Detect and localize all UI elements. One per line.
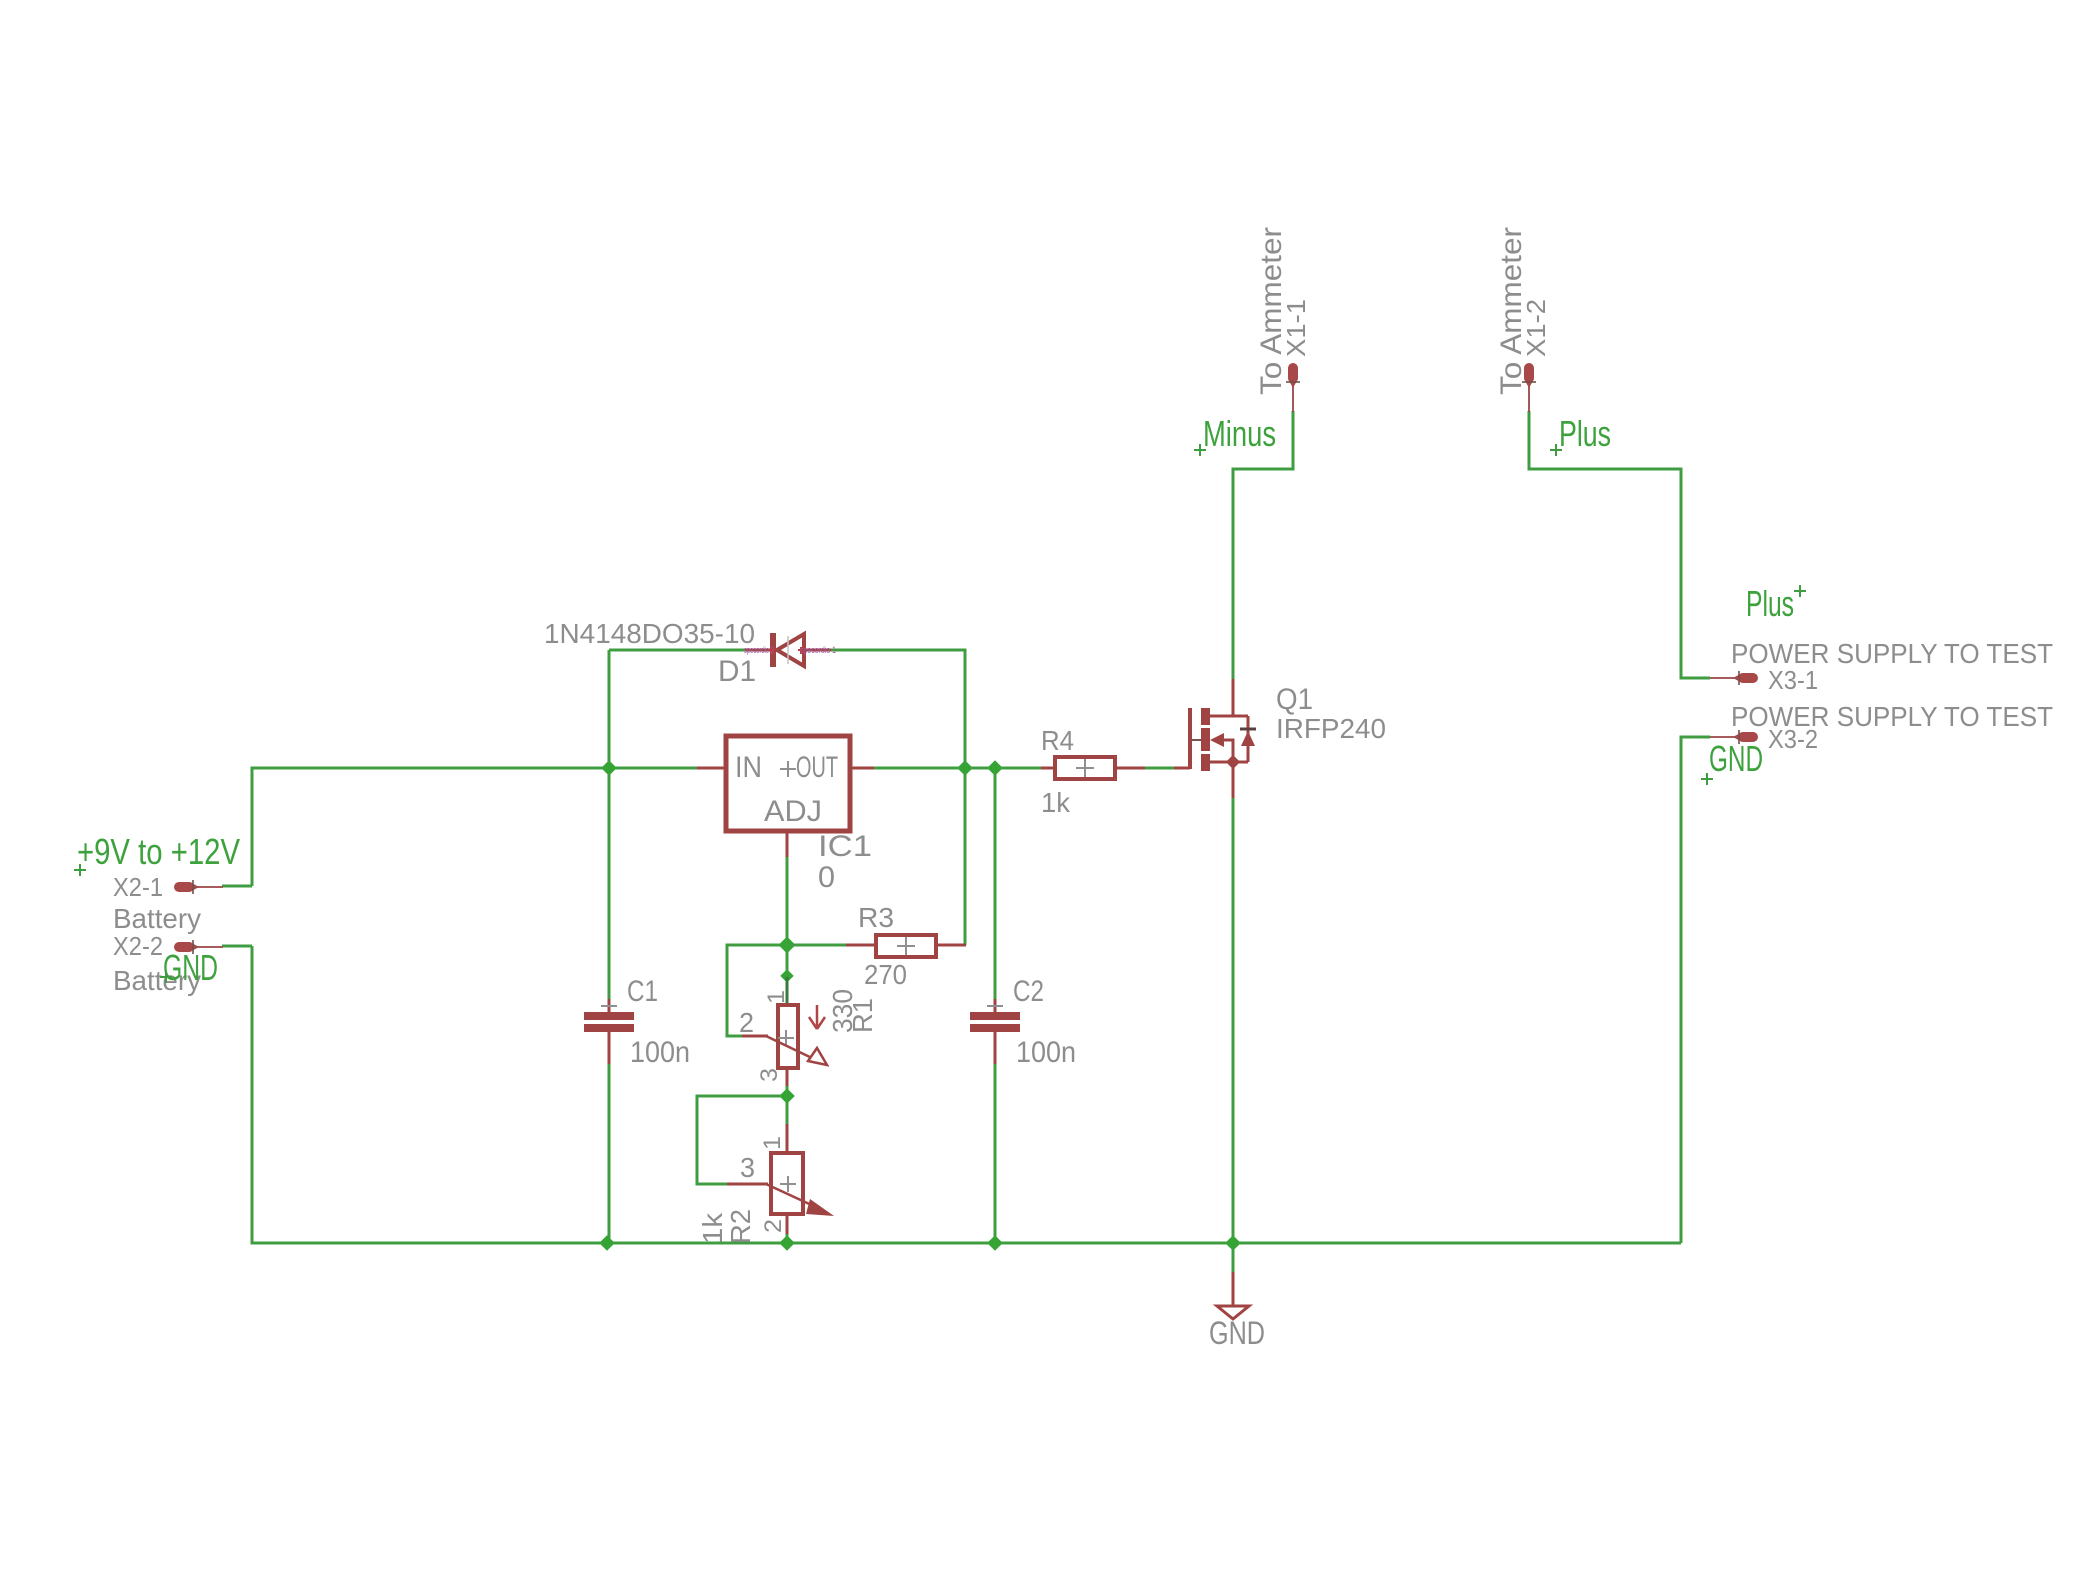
junction node bus at C1 — [599, 1235, 615, 1251]
op-amp IC1 regulator box — [726, 736, 850, 831]
wire R2 pin2 to bus — [786, 1232, 789, 1243]
svg-text:2: 2 — [760, 1219, 787, 1233]
svg-text:GND: GND — [1709, 738, 1763, 779]
wire ADJ down to junction — [786, 857, 789, 977]
junction node R1 pin1 — [780, 969, 793, 982]
capacitor C1 top lead — [608, 999, 611, 1014]
potentiometer R1 pin2 lead — [742, 1035, 768, 1038]
capacitor C2 bottom lead — [994, 1031, 997, 1064]
wire Plus net from X1-2 — [1529, 411, 1710, 678]
svg-text:C1: C1 — [627, 975, 658, 1008]
node Minus origin cross — [1194, 444, 1206, 456]
diode D1 pin stub right — [804, 649, 831, 652]
resistor R3 stub right — [936, 944, 966, 947]
transistor Q1 gate tick — [1192, 739, 1201, 741]
diode D1 pad cross 1 — [798, 647, 805, 654]
capacitor C1 plate top — [584, 1012, 634, 1020]
transistor Q1 substrate arrow — [1210, 733, 1224, 747]
svg-text:X2-1: X2-1 — [113, 872, 163, 902]
svg-text:C2: C2 — [1013, 975, 1044, 1008]
svg-text:R3: R3 — [858, 902, 894, 933]
svg-text:IRFP240: IRFP240 — [1276, 713, 1386, 744]
transistor Q1 body diode triangle — [1241, 731, 1255, 746]
wire C2 vertical upper — [994, 768, 997, 1001]
diode D1 pin stub left — [745, 649, 771, 652]
potentiometer R1 origin cross — [778, 1030, 794, 1046]
svg-text:X2-2: X2-2 — [113, 931, 163, 961]
transistor Q1 channel pad middle — [1201, 728, 1210, 751]
junction node bus at Q1/GND — [1225, 1235, 1241, 1251]
transistor Q1 body diode vertical — [1247, 716, 1250, 762]
wire X2-1 to corner — [222, 885, 252, 888]
potentiometer R1 pin3 stub — [786, 1066, 789, 1086]
IC1 pin stub ADJ — [786, 831, 789, 857]
svg-text:GND: GND — [163, 947, 218, 988]
potentiometer R2 pin3 lead — [727, 1183, 768, 1186]
wire GND symbol stub — [1232, 1243, 1235, 1273]
connector pin X2-1 — [174, 880, 223, 894]
connector pin X1-1 — [1286, 363, 1300, 412]
node GND right origin cross — [1701, 773, 1713, 785]
svg-text:IC1: IC1 — [818, 830, 872, 863]
wire X3-2 GND net down to bus — [1681, 737, 1710, 1243]
transistor Q1 channel pad bottom — [1201, 754, 1210, 771]
svg-text:0: 0 — [818, 861, 835, 894]
svg-text:1k: 1k — [697, 1212, 728, 1244]
IC1 origin cross — [780, 761, 796, 777]
svg-text:100n: 100n — [1016, 1036, 1076, 1069]
node Plus right origin cross — [1794, 585, 1806, 597]
diode D1 triangle — [777, 634, 804, 666]
potentiometer R1 set arrow — [809, 1005, 825, 1029]
transistor Q1 channel pad top — [1201, 708, 1210, 725]
connector pin X1-2 — [1522, 363, 1536, 412]
resistor R4 body — [1055, 757, 1115, 779]
wire C1 vertical lower — [608, 1063, 611, 1243]
IC1 pin stub IN — [697, 767, 726, 770]
diode D1 cathode bar — [770, 633, 776, 667]
svg-text:X3-1: X3-1 — [1768, 665, 1818, 695]
svg-text:GND: GND — [1209, 1315, 1265, 1351]
junction node bus at C2 — [987, 1235, 1003, 1251]
junction node on main line at C1 — [601, 760, 617, 776]
capacitor C2 plate top — [970, 1012, 1020, 1020]
potentiometer R2 origin cross — [780, 1176, 796, 1192]
connector pin X2-2 — [174, 940, 223, 954]
ground symbol GND — [1217, 1272, 1249, 1319]
capacitor C2 plate bottom — [970, 1024, 1020, 1032]
wire net N$1 main horizontal from X2-1 to IC1 IN — [252, 768, 697, 886]
transistor Q1 drain to body diode — [1233, 715, 1248, 718]
svg-text:1k: 1k — [1041, 787, 1071, 818]
svg-text:OUT: OUT — [796, 751, 838, 784]
wire R2 pin1 from junction — [786, 1096, 789, 1126]
svg-text:ADJ: ADJ — [764, 795, 822, 828]
wire R2 pin3 loop — [697, 1096, 787, 1184]
svg-text:POWER SUPPLY TO TEST: POWER SUPPLY TO TEST — [1731, 701, 2053, 732]
svg-text:Battery: Battery — [113, 903, 201, 934]
connector pin X3-1 — [1710, 671, 1758, 685]
svg-text:3: 3 — [756, 1068, 783, 1082]
svg-text:2: 2 — [739, 1007, 754, 1038]
resistor R3 stub left — [846, 944, 876, 947]
svg-text:+9V to +12V: +9V to +12V — [77, 831, 240, 872]
IC1 pin stub OUT — [850, 767, 874, 770]
svg-text:1: 1 — [759, 1136, 786, 1150]
svg-text:POWER SUPPLY TO TEST: POWER SUPPLY TO TEST — [1731, 638, 2053, 669]
node GND left origin cross — [160, 971, 172, 983]
potentiometer R1 wiper diagonal — [766, 1036, 814, 1059]
potentiometer R1 wiper open arrowhead — [808, 1048, 827, 1065]
junction node ADJ/R3 — [779, 937, 796, 954]
node Plus origin cross top — [1550, 444, 1562, 456]
wire Minus net from X1-1 — [1233, 411, 1293, 679]
node +9V origin cross — [74, 864, 86, 876]
junction node C2 top — [987, 760, 1003, 776]
junction node D1/OUT vertical — [957, 760, 973, 776]
svg-text:1: 1 — [763, 990, 790, 1004]
resistor R3 body — [876, 935, 936, 957]
svg-text:1N4148DO35-10: 1N4148DO35-10 — [544, 618, 755, 649]
wire C1 vertical upper — [608, 650, 611, 1001]
svg-text:D1: D1 — [718, 655, 756, 688]
wire R4 to Q1 gate — [1129, 767, 1174, 770]
wire bottom bus GND net — [252, 946, 1681, 1243]
diode D1 origin cross faint — [787, 636, 789, 664]
svg-text:R4: R4 — [1041, 725, 1074, 756]
svg-text:Plus: Plus — [1559, 413, 1611, 454]
svg-text:Plus: Plus — [1746, 583, 1794, 624]
resistor R4 origin cross — [1076, 759, 1094, 777]
resistor R4 stub right — [1115, 767, 1145, 770]
transistor Q1 gate stub — [1174, 767, 1190, 770]
diode D1 pad cross 2 — [768, 647, 775, 654]
wire R1 pin2 loop — [727, 945, 787, 1036]
svg-text:100n: 100n — [630, 1036, 690, 1069]
transistor Q1 source lead — [1232, 762, 1235, 798]
junction node bus at R2 — [779, 1235, 795, 1251]
potentiometer R2 wiper filled arrowhead — [806, 1199, 834, 1216]
transistor Q1 source bar — [1210, 761, 1248, 764]
svg-text:X1-2: X1-2 — [1521, 299, 1551, 357]
wire C2 vertical lower — [994, 1063, 997, 1243]
svg-text:specordio 1: specordio 1 — [800, 645, 836, 655]
wire Q1 source to bus — [1232, 797, 1235, 1243]
svg-text:270: 270 — [864, 959, 907, 990]
wire D1 right to vertical — [831, 650, 965, 945]
wire R1 pin3 to junction — [786, 1084, 789, 1096]
transistor Q1 body diode cathode bar — [1240, 728, 1256, 731]
transistor Q1 drain lead — [1210, 679, 1233, 716]
resistor R3 origin cross — [897, 937, 915, 955]
potentiometer R2 wiper diagonal — [766, 1184, 818, 1208]
transistor Q1 arrow link — [1224, 740, 1233, 762]
wire OUT line — [874, 767, 1041, 770]
svg-text:R2: R2 — [725, 1209, 756, 1244]
transistor Q1 gate bar — [1188, 708, 1192, 769]
svg-text:3: 3 — [740, 1152, 755, 1183]
potentiometer R1 body — [778, 1005, 798, 1068]
capacitor C1 bottom lead — [608, 1031, 611, 1064]
connector pin X3-2 — [1710, 730, 1758, 744]
potentiometer R2 body — [771, 1153, 803, 1214]
capacitor C1 plate bottom — [584, 1024, 634, 1032]
junction node R1 pin3 / R2 pin1 — [779, 1088, 795, 1104]
wire D1 branch top — [609, 649, 745, 652]
svg-text:Minus: Minus — [1203, 413, 1276, 454]
capacitor C1 origin cross — [601, 1005, 617, 1007]
resistor R4 stub left — [1041, 767, 1055, 770]
transistor Q1 source junction — [1226, 755, 1240, 769]
capacitor C2 origin cross — [987, 1005, 1003, 1007]
svg-text:IN: IN — [735, 751, 762, 784]
potentiometer R2 pin2 stub — [786, 1212, 789, 1234]
capacitor C2 top lead — [994, 999, 997, 1014]
wire X2-2 to corner — [222, 945, 252, 948]
svg-text:Q1: Q1 — [1276, 683, 1313, 716]
potentiometer R2 pin1 stub — [786, 1124, 789, 1154]
svg-text:X1-1: X1-1 — [1281, 299, 1311, 357]
potentiometer R1 pin1 stub — [786, 977, 789, 1006]
wire ADJ junction to R3 — [787, 944, 846, 947]
svg-text:R1: R1 — [847, 998, 878, 1033]
